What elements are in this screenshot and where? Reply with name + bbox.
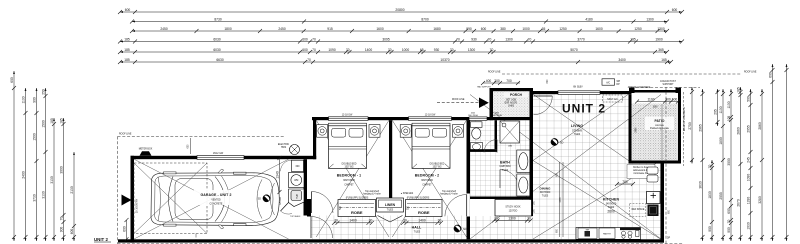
svg-text:1390: 1390 — [747, 197, 751, 205]
svg-text:185: 185 — [124, 58, 130, 62]
svg-text:200: 200 — [665, 97, 671, 101]
svg-text:3730: 3730 — [33, 194, 37, 202]
garage long diagonals over car — [134, 159, 289, 239]
left dim line a — [13, 71, 15, 241]
oven box — [578, 228, 597, 239]
sink — [647, 167, 658, 174]
svg-text:concrete: concrete — [655, 124, 665, 127]
svg-text:TOP SHELF: TOP SHELF — [290, 216, 301, 218]
svg-text:(FLR&UPP) SLIDERS: (FLR&UPP) SLIDERS — [407, 197, 430, 199]
entry triangle porch — [479, 98, 489, 109]
svg-text:BEDROOM - 1: BEDROOM - 1 — [337, 174, 361, 178]
garage 1340 dim — [279, 158, 281, 192]
svg-text:ROOF LINE: ROOF LINE — [452, 99, 465, 101]
right dim line a — [691, 87, 693, 164]
left dim line e — [53, 118, 55, 241]
svg-text:600: 600 — [727, 208, 731, 214]
patio label — [645, 117, 674, 131]
split AC dashed — [603, 95, 623, 102]
svg-text:VENTED: VENTED — [211, 200, 221, 202]
svg-text:2965: 2965 — [699, 124, 703, 132]
kitchen bench bottom — [576, 228, 641, 240]
svg-text:DOUBLE BED: DOUBLE BED — [342, 164, 357, 166]
laundry door leaf — [281, 203, 289, 212]
linen bifold door — [378, 216, 403, 223]
svg-text:65: 65 — [420, 48, 424, 52]
bedroom2 cross diagonals — [392, 120, 466, 237]
svg-text:PAD SUPPORT: PAD SUPPORT — [477, 86, 491, 89]
patio top edge — [632, 90, 682, 93]
svg-text:70: 70 — [494, 216, 498, 220]
right dim line c — [711, 160, 713, 241]
svg-text:165: 165 — [661, 58, 667, 62]
svg-text:Top wall shelf: Top wall shelf — [365, 191, 379, 193]
svg-text:STUDY NOOK: STUDY NOOK — [505, 206, 521, 208]
car top view — [151, 173, 279, 226]
svg-text:CARPET: CARPET — [422, 184, 432, 187]
svg-text:BEDROOM - 2: BEDROOM - 2 — [415, 174, 439, 178]
svg-text:3400: 3400 — [618, 58, 626, 62]
bedroom2 right wall / bath left wall — [467, 120, 471, 239]
kitchen dining cross — [533, 161, 661, 240]
svg-text:SET UGB: SET UGB — [506, 100, 517, 102]
car windshield + roof — [215, 177, 225, 222]
svg-text:CABT3030: CABT3030 — [499, 165, 511, 168]
svg-text:6030: 6030 — [213, 37, 221, 41]
svg-text:1600: 1600 — [595, 27, 603, 31]
svg-text:100x100 POST: 100x100 POST — [660, 81, 676, 83]
svg-text:2600: 2600 — [607, 210, 615, 214]
edge of concrete dashed — [683, 92, 685, 166]
svg-text:TILES: TILES — [574, 134, 581, 136]
svg-text:ELECTRIC: ELECTRIC — [278, 144, 290, 146]
right dim line e — [722, 89, 724, 241]
utility column wall — [304, 159, 308, 215]
porch left wall — [490, 88, 494, 120]
svg-text:16/12 GW: 16/12 GW — [213, 153, 224, 155]
svg-text:2750: 2750 — [688, 122, 692, 130]
svg-text:3097X3030: 3097X3030 — [343, 180, 355, 182]
pantry — [599, 228, 615, 239]
porch top wall — [490, 88, 534, 91]
entry door arc — [534, 95, 553, 97]
svg-text:UNIT 2: UNIT 2 — [562, 102, 606, 116]
wc toilet — [471, 122, 483, 128]
svg-text:915: 915 — [327, 27, 333, 31]
living area cross diagonals — [470, 95, 661, 240]
svg-text:GH83: GH83 — [508, 106, 515, 108]
svg-text:SD: SD — [463, 228, 467, 231]
svg-text:2860: 2860 — [636, 127, 638, 133]
svg-text:20-16 ENTRY: 20-16 ENTRY — [136, 198, 138, 213]
cooktop — [620, 228, 641, 231]
left dim line f — [63, 118, 65, 241]
svg-text:1537 BG: 1537 BG — [344, 166, 353, 168]
svg-text:900: 900 — [33, 97, 37, 103]
svg-text:3000: 3000 — [60, 166, 64, 174]
svg-text:DP: DP — [667, 238, 671, 240]
svg-text:1060: 1060 — [652, 107, 658, 109]
shower — [500, 121, 520, 143]
left dim line b — [25, 88, 27, 241]
svg-text:A/C: A/C — [606, 81, 610, 84]
car rear lines — [158, 177, 161, 221]
svg-text:3497X979: 3497X979 — [606, 203, 617, 205]
dim row 3 — [132, 30, 667, 32]
svg-text:1000: 1000 — [522, 27, 530, 31]
svg-text:185: 185 — [737, 87, 741, 93]
wc door arc — [496, 140, 498, 153]
svg-text:ROBE: ROBE — [418, 210, 430, 215]
svg-text:SPLIT A/C: SPLIT A/C — [607, 98, 618, 101]
svg-text:BATH: BATH — [500, 160, 510, 164]
bed 2 double — [400, 123, 463, 168]
svg-text:1090: 1090 — [328, 48, 336, 52]
bath tub — [517, 150, 530, 173]
svg-text:1090: 1090 — [747, 174, 751, 182]
svg-text:600: 600 — [769, 72, 773, 78]
garage label — [194, 190, 238, 205]
svg-text:2670: 2670 — [737, 199, 741, 207]
svg-text:600: 600 — [547, 79, 549, 84]
svg-text:70: 70 — [403, 219, 407, 223]
bath-study divider wall — [470, 197, 533, 200]
svg-text:10370: 10370 — [440, 58, 449, 62]
patio dims — [637, 101, 678, 103]
tiled floor kitchen dining — [533, 161, 661, 240]
svg-text:70: 70 — [450, 48, 454, 52]
inter-bedroom wall — [389, 120, 392, 199]
svg-text:600: 600 — [70, 229, 74, 235]
svg-text:185: 185 — [630, 37, 636, 41]
svg-text:70: 70 — [708, 165, 712, 169]
svg-text:990: 990 — [466, 27, 472, 31]
tiled floor hall — [311, 216, 467, 240]
living room cross — [533, 94, 629, 160]
svg-text:3630: 3630 — [699, 181, 703, 189]
right dim line b — [702, 89, 704, 241]
study dim 1300 — [494, 220, 531, 222]
svg-text:3280: 3280 — [758, 196, 762, 204]
bedroom1 window 12-18 GW — [329, 117, 369, 121]
kitchen bench right — [644, 163, 661, 165]
svg-text:1130: 1130 — [727, 101, 731, 108]
svg-text:3497X960: 3497X960 — [540, 192, 551, 194]
svg-text:4180: 4180 — [585, 17, 593, 21]
svg-text:105: 105 — [727, 116, 731, 122]
svg-text:70: 70 — [490, 48, 494, 52]
bedrooms top wall — [312, 117, 470, 120]
svg-text:1130: 1130 — [719, 106, 723, 113]
living smoke detector — [551, 138, 558, 145]
garage window 16/12 GW — [197, 156, 244, 160]
svg-text:365: 365 — [658, 48, 664, 52]
svg-text:1100: 1100 — [647, 97, 654, 101]
dim row 2 — [132, 21, 667, 23]
svg-text:CARPET: CARPET — [344, 184, 354, 187]
svg-text:ROBE: ROBE — [351, 210, 363, 215]
svg-text:900: 900 — [60, 227, 64, 233]
svg-text:GARAGE - UNIT 2: GARAGE - UNIT 2 — [200, 193, 231, 197]
svg-text:600: 600 — [188, 144, 190, 149]
ref space dashed box — [630, 204, 646, 217]
patio right wall — [678, 90, 681, 164]
bed1 door arc — [311, 192, 313, 214]
svg-text:1300: 1300 — [646, 17, 654, 21]
car bonnet lines — [257, 180, 262, 219]
svg-text:70: 70 — [528, 37, 532, 41]
svg-text:205: 205 — [714, 109, 718, 115]
svg-text:SUPPORT: SUPPORT — [662, 84, 674, 86]
study nook — [495, 200, 532, 217]
svg-text:2055: 2055 — [747, 125, 751, 133]
svg-text:725 DR: 725 DR — [280, 197, 282, 205]
svg-text:70: 70 — [334, 219, 338, 223]
living window 6N SLBV — [558, 91, 600, 95]
svg-text:1380: 1380 — [508, 146, 512, 148]
bath door arc — [499, 170, 501, 189]
svg-text:METER BOX: METER BOX — [139, 148, 153, 150]
svg-text:600: 600 — [302, 37, 308, 41]
svg-text:3000: 3000 — [727, 158, 731, 166]
svg-text:70: 70 — [312, 48, 316, 52]
svg-text:HALL: HALL — [412, 226, 422, 230]
right dim line f — [730, 89, 732, 241]
svg-text:245: 245 — [747, 157, 751, 163]
svg-text:600: 600 — [125, 8, 131, 12]
svg-text:400: 400 — [486, 79, 492, 83]
svg-text:1250: 1250 — [559, 27, 567, 31]
svg-text:1500: 1500 — [42, 120, 46, 128]
svg-text:5070: 5070 — [570, 48, 578, 52]
svg-text:6030: 6030 — [213, 48, 221, 52]
linen cupboard — [377, 198, 404, 212]
roof line right — [631, 87, 700, 244]
svg-text:1000: 1000 — [402, 48, 410, 52]
svg-text:600: 600 — [10, 77, 14, 83]
svg-text:1800: 1800 — [224, 27, 232, 31]
patio posts — [629, 88, 635, 94]
svg-text:70: 70 — [456, 37, 460, 41]
svg-text:ROOF LINE: ROOF LINE — [744, 72, 757, 74]
svg-text:600: 600 — [302, 48, 308, 52]
laundry tub — [289, 189, 305, 207]
svg-text:700: 700 — [506, 79, 512, 83]
svg-text:2450: 2450 — [278, 27, 286, 31]
svg-text:185: 185 — [124, 48, 130, 52]
svg-text:1070: 1070 — [560, 197, 562, 203]
bedroom2 window 12-18 GW — [409, 117, 452, 121]
bath top wall below porch — [467, 117, 534, 120]
svg-text:1400: 1400 — [418, 219, 426, 223]
svg-text:1400: 1400 — [349, 219, 357, 223]
svg-text:DINING: DINING — [539, 187, 551, 191]
svg-text:380: 380 — [500, 27, 506, 31]
svg-text:1830: 1830 — [708, 191, 712, 199]
svg-text:Painted Aggregate: Painted Aggregate — [650, 127, 670, 130]
hall smoke detector — [454, 225, 461, 232]
bath column right wall — [530, 88, 534, 216]
garage centre line — [195, 234, 197, 244]
svg-text:REF SPACE: REF SPACE — [632, 208, 645, 211]
dim row 4 — [120, 41, 682, 43]
svg-text:70: 70 — [527, 216, 531, 220]
roof line left — [118, 137, 286, 244]
svg-text:70: 70 — [727, 220, 731, 224]
svg-text:DP: DP — [617, 84, 621, 86]
svg-text:70: 70 — [488, 37, 492, 41]
svg-text:3097X3030: 3097X3030 — [421, 180, 433, 182]
svg-text:WP: WP — [617, 81, 621, 83]
svg-text:ROOF LINE: ROOF LINE — [488, 72, 501, 74]
garage top wall — [131, 156, 317, 159]
wc-bath wall — [467, 149, 498, 152]
svg-text:LIVING: LIVING — [571, 124, 583, 128]
vanity — [517, 174, 530, 196]
washing machine — [289, 173, 305, 188]
svg-text:1300: 1300 — [468, 48, 476, 52]
patio stippled concrete — [632, 104, 679, 161]
svg-text:1537 BG: 1537 BG — [432, 166, 441, 168]
tiled floor hall east — [470, 216, 533, 239]
svg-text:185: 185 — [50, 118, 54, 124]
svg-text:600: 600 — [672, 97, 678, 101]
svg-text:12-18 GW: 12-18 GW — [342, 114, 353, 116]
svg-text:250: 250 — [42, 89, 46, 95]
svg-text:EDGE OF CONCRETE: EDGE OF CONCRETE — [684, 107, 686, 131]
svg-text:Top wall shelf: Top wall shelf — [442, 191, 456, 193]
electric hws — [290, 145, 300, 155]
svg-text:70: 70 — [60, 217, 64, 221]
svg-text:TILES: TILES — [387, 210, 394, 212]
svg-text:LINEN: LINEN — [385, 203, 396, 207]
svg-text:CONCRETE: CONCRETE — [210, 203, 223, 205]
svg-text:185: 185 — [60, 118, 64, 124]
dim row 1 — [120, 11, 682, 13]
hall dims 1400 — [334, 222, 372, 224]
svg-text:PORCH: PORCH — [510, 93, 523, 97]
meter box — [140, 151, 152, 156]
left dim line d — [45, 88, 47, 241]
svg-text:DT9 BM9: DT9 BM9 — [572, 130, 582, 132]
svg-text:600: 600 — [669, 209, 671, 214]
right dim line g — [740, 87, 742, 241]
svg-text:DW+782xB: DW+782xB — [492, 115, 502, 117]
hall-garage door arc — [310, 217, 312, 239]
svg-text:70: 70 — [346, 48, 350, 52]
svg-text:70: 70 — [312, 37, 316, 41]
dim row 5 — [120, 51, 667, 53]
svg-text:1340: 1340 — [276, 171, 280, 179]
garage door zone dashed box over car — [134, 163, 207, 234]
svg-text:TILES: TILES — [414, 232, 421, 234]
roof line bottom — [118, 243, 684, 244]
freezer dark — [648, 205, 659, 217]
svg-text:1500: 1500 — [33, 133, 37, 141]
svg-text:3130: 3130 — [42, 191, 46, 199]
svg-text:65: 65 — [542, 27, 546, 31]
porch dim 400 200 700 — [483, 82, 520, 84]
kitchen 700 dim — [617, 183, 633, 185]
entry triangle left — [122, 195, 132, 206]
svg-text:6N SLBV: 6N SLBV — [573, 87, 583, 89]
svg-text:3130: 3130 — [50, 176, 54, 184]
dim row 6 — [120, 61, 671, 63]
porch stippled concrete — [493, 91, 530, 117]
bedroom1 cross diagonals — [316, 120, 389, 237]
bed 1 double — [317, 123, 380, 168]
garage 600 dim — [126, 220, 128, 239]
svg-text:900: 900 — [708, 226, 712, 232]
svg-text:900: 900 — [727, 227, 731, 233]
left dim line c — [36, 88, 38, 241]
linen cupboard top — [292, 160, 304, 171]
right dim line h — [750, 89, 752, 241]
wc-shower divider wall — [495, 120, 498, 149]
svg-text:1400: 1400 — [365, 48, 373, 52]
svg-text:1030: 1030 — [747, 222, 751, 230]
svg-text:(FLR&UPP) SLIDERS: (FLR&UPP) SLIDERS — [346, 197, 369, 199]
right dim line j — [772, 64, 774, 241]
kitchen right wall — [661, 161, 665, 243]
svg-text:2450: 2450 — [160, 27, 168, 31]
svg-text:HWS: HWS — [281, 147, 287, 149]
svg-text:200: 200 — [494, 79, 500, 83]
svg-text:30: 30 — [438, 219, 442, 223]
svg-text:12-18 GW: 12-18 GW — [425, 114, 436, 116]
svg-text:3770: 3770 — [577, 37, 585, 41]
svg-text:70: 70 — [307, 58, 311, 62]
living right wall / patio left — [629, 94, 632, 163]
svg-text:600: 600 — [672, 8, 678, 12]
svg-text:930: 930 — [434, 48, 440, 52]
kitchen note box — [627, 165, 655, 179]
living top wall — [533, 91, 632, 94]
svg-text:1300: 1300 — [508, 216, 516, 220]
svg-text:● SHELVES: ● SHELVES — [401, 192, 414, 195]
svg-text:3095: 3095 — [382, 37, 390, 41]
svg-text:DW+782xB: DW+782xB — [468, 115, 478, 117]
svg-text:500: 500 — [747, 96, 751, 102]
svg-text:2860: 2860 — [737, 127, 741, 135]
bed2 door gap + arc — [466, 194, 470, 217]
roof line entry — [437, 101, 479, 103]
svg-text:TUB: TUB — [297, 194, 299, 199]
svg-text:SD: SD — [258, 198, 262, 201]
wc basin — [471, 143, 483, 152]
tiled floor living — [533, 94, 629, 160]
svg-text:EXP. AGGR.: EXP. AGGR. — [505, 102, 518, 105]
wc window — [469, 117, 487, 120]
robe 1 — [338, 200, 376, 217]
svg-text:930: 930 — [471, 37, 477, 41]
svg-text:DOUBLE BED: DOUBLE BED — [430, 164, 445, 166]
svg-text:700: 700 — [622, 180, 628, 184]
svg-text:600: 600 — [481, 27, 487, 31]
right dim line i — [761, 89, 763, 241]
svg-text:1207GO: 1207GO — [509, 210, 518, 212]
car mirrors — [218, 169, 224, 229]
svg-text:6630: 6630 — [216, 58, 224, 62]
svg-text:SD: SD — [560, 142, 564, 145]
svg-text:2400: 2400 — [22, 171, 26, 179]
porch label — [504, 93, 528, 98]
svg-text:2055: 2055 — [719, 192, 723, 200]
svg-text:PATIO: PATIO — [654, 119, 664, 123]
svg-text:600: 600 — [123, 226, 127, 232]
svg-text:WM: WM — [294, 180, 298, 182]
patio step line — [661, 104, 663, 160]
